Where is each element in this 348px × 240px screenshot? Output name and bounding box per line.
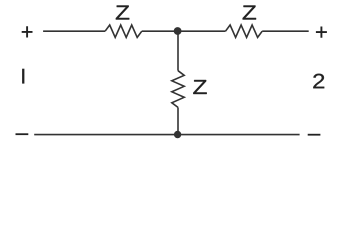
node A (top junction dot) xyxy=(174,27,182,35)
wire R2 to port2 + terminal xyxy=(262,30,309,32)
wire node A to R2 xyxy=(178,30,226,32)
label minus (port1 bottom) xyxy=(16,133,29,135)
resistor Z3 (shunt, vertical) xyxy=(172,71,184,108)
label + (port1 top) xyxy=(22,26,33,37)
label minus (port2 bottom) xyxy=(308,134,321,136)
label port 1 (I) xyxy=(22,69,24,84)
wire top-left (port1 + terminal to R1) xyxy=(43,30,105,32)
label + (port2 top) xyxy=(316,27,327,38)
wire R3 down to node B xyxy=(177,107,179,134)
resistor Z1 (series, left) xyxy=(105,25,142,37)
value label Z of R1 xyxy=(116,6,129,20)
value label Z of R2 xyxy=(243,6,256,20)
node B (bottom junction dot) xyxy=(174,131,181,138)
resistor Z2 (series, right) xyxy=(226,25,263,37)
label port 2 (2) xyxy=(313,74,324,89)
value label Z of R3 xyxy=(193,80,206,94)
wire R1 to node A xyxy=(142,30,178,32)
wire node A down to R3 xyxy=(177,31,179,70)
wire bottom (port1 - terminal to port2 - terminal) xyxy=(34,134,299,136)
